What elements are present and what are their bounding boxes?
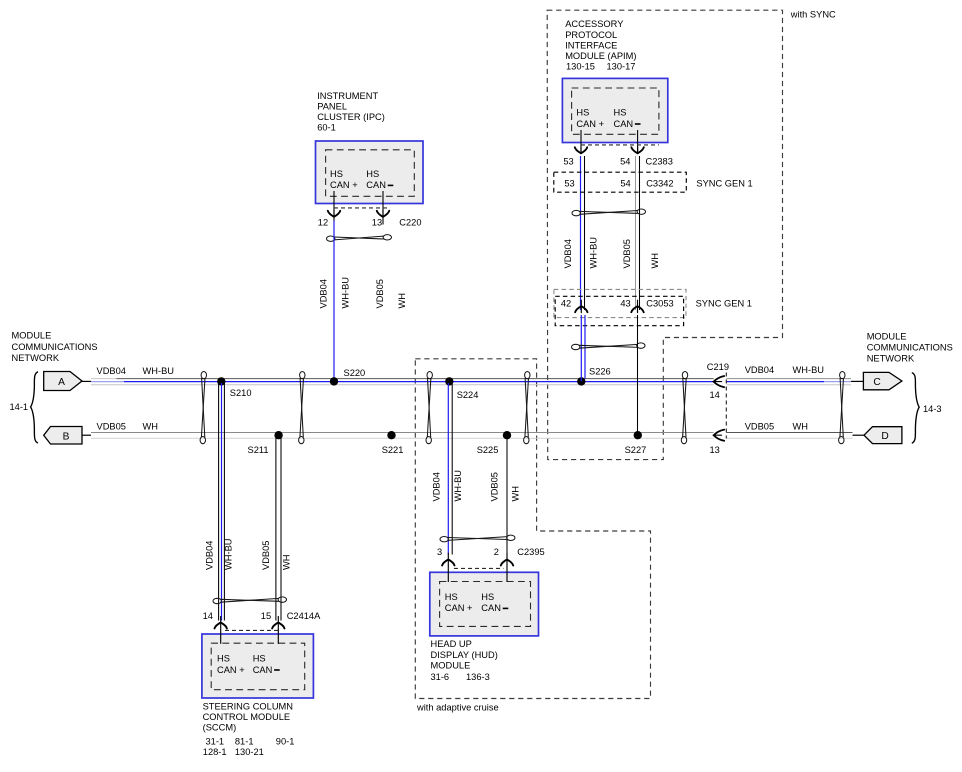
label SYNC GEN 1 lower xyxy=(696,299,752,309)
svg-text:HS: HS xyxy=(576,108,589,118)
wire APIM HS CAN+ pin stub xyxy=(580,130,582,153)
svg-text:VDB04: VDB04 xyxy=(563,239,573,268)
svg-text:with SYNC: with SYNC xyxy=(790,10,836,20)
splice S221 xyxy=(382,431,404,455)
svg-text:31-1: 31-1 xyxy=(206,737,225,747)
svg-text:VDB04: VDB04 xyxy=(745,365,774,375)
wire VDB04 WH-BU C3053 to S226 xyxy=(581,315,585,382)
svg-text:60-1: 60-1 xyxy=(317,123,336,133)
wire VDB05 WH C3053 to S227 xyxy=(637,315,639,435)
connector C2383 pin 53 xyxy=(563,156,573,166)
svg-text:D: D xyxy=(881,431,888,442)
twisted pair symbol at x=429.2 xyxy=(426,372,432,444)
connector C3053 arrows xyxy=(575,300,644,313)
svg-text:MODULE: MODULE xyxy=(431,660,471,670)
twisted pair symbol at x=684.5 xyxy=(681,372,687,444)
svg-text:15: 15 xyxy=(261,611,271,621)
svg-text:NETWORK: NETWORK xyxy=(12,353,60,363)
wire HUD pin stubs xyxy=(448,566,507,582)
svg-text:S210: S210 xyxy=(230,388,252,398)
svg-text:STEERING COLUMN: STEERING COLUMN xyxy=(203,702,293,712)
svg-text:B: B xyxy=(63,431,70,442)
svg-text:MODULE (APIM): MODULE (APIM) xyxy=(565,51,636,61)
svg-text:S221: S221 xyxy=(382,445,404,455)
svg-text:A: A xyxy=(58,377,65,388)
APIM page references xyxy=(566,62,635,72)
svg-text:14-3: 14-3 xyxy=(923,404,942,414)
wire IPC HS CAN- pin stub xyxy=(382,191,384,225)
svg-text:COMMUNICATIONS: COMMUNICATIONS xyxy=(12,342,98,352)
svg-text:CLUSTER (IPC): CLUSTER (IPC) xyxy=(317,112,385,122)
twisted pair below C220 xyxy=(327,235,392,242)
svg-text:C2383: C2383 xyxy=(646,156,673,166)
svg-text:HS: HS xyxy=(445,592,458,602)
svg-text:VDB04: VDB04 xyxy=(318,279,328,308)
svg-text:S220: S220 xyxy=(344,368,366,378)
svg-text:VDB05: VDB05 xyxy=(261,541,271,570)
connector C2395 arrows xyxy=(442,554,513,567)
svg-text:14-1: 14-1 xyxy=(10,402,29,412)
wire SCCM pin stubs xyxy=(221,629,279,644)
connector C220 pin 13 xyxy=(372,217,382,227)
connector C3342 dashed box SYNC GEN 1 xyxy=(554,172,687,192)
label VDB05 right xyxy=(745,422,774,432)
label VDB05 vertical APIM xyxy=(622,239,632,268)
label VDB05 left xyxy=(97,422,126,432)
svg-text:CAN +: CAN + xyxy=(576,119,604,129)
left network label xyxy=(12,331,98,363)
svg-text:VDB05: VDB05 xyxy=(745,422,774,432)
module U2 SCCM box xyxy=(202,634,314,698)
wire VDB05 WH C2383 to C3053 xyxy=(636,156,640,310)
connector C2395 label xyxy=(517,547,544,557)
splice S224 xyxy=(445,377,478,400)
label VDB04 vertical SCCM xyxy=(205,541,215,570)
svg-text:SYNC GEN 1: SYNC GEN 1 xyxy=(696,179,752,189)
label WH-BU vertical HUD xyxy=(453,470,463,502)
right page reference 14-3 xyxy=(912,373,942,444)
svg-text:12: 12 xyxy=(318,217,328,227)
connector C219 xyxy=(707,362,729,455)
connector C2395 pin 2 xyxy=(494,547,499,557)
svg-text:43: 43 xyxy=(620,299,630,309)
label SYNC GEN 1 upper xyxy=(696,179,752,189)
label VDB05 vertical SCCM xyxy=(261,541,271,570)
svg-text:CAN +: CAN + xyxy=(217,665,245,675)
twisted pair symbol at x=203.3 xyxy=(200,372,206,444)
svg-text:42: 42 xyxy=(561,299,571,309)
svg-text:130-15: 130-15 xyxy=(566,62,595,72)
splice S225 xyxy=(477,431,511,455)
svg-text:WH: WH xyxy=(143,422,159,432)
label WH-BU left xyxy=(143,366,175,376)
connector C2383 dashed edge xyxy=(581,144,659,146)
connector C2395 dashed edge xyxy=(454,567,504,569)
module U1 Instrument Panel Cluster (IPC) label xyxy=(317,91,385,133)
splice S227 xyxy=(625,431,647,455)
svg-text:WH: WH xyxy=(397,293,407,309)
svg-text:(SCCM): (SCCM) xyxy=(203,723,237,733)
module U3 HUD box xyxy=(430,572,539,636)
wire VDB05 WH S225 to HUD xyxy=(506,437,508,555)
node B connector xyxy=(44,427,91,445)
label VDB05 vertical HUD xyxy=(489,472,499,501)
svg-text:VDB04: VDB04 xyxy=(97,366,126,376)
svg-text:HS: HS xyxy=(481,592,494,602)
label WH-BU right xyxy=(793,365,825,375)
twisted pair symbol at x=301.8 xyxy=(299,372,305,444)
svg-text:VDB05: VDB05 xyxy=(375,279,385,308)
connector C2414A arrows xyxy=(215,617,285,630)
svg-text:136-3: 136-3 xyxy=(466,672,490,682)
svg-text:53: 53 xyxy=(563,156,573,166)
wire IPC HS CAN+ pin stub xyxy=(333,191,335,221)
twisted pair below C3053 xyxy=(572,343,646,350)
svg-text:MODULE: MODULE xyxy=(12,331,52,341)
svg-text:VDB05: VDB05 xyxy=(97,422,126,432)
svg-text:WH: WH xyxy=(793,422,809,432)
wire VDB04 WH-BU S210 to SCCM xyxy=(219,383,225,621)
connector C2414A dashed edge xyxy=(225,629,279,631)
HUD page references xyxy=(431,672,490,682)
connector C220 dashed edge xyxy=(334,207,390,209)
svg-text:CONTROL MODULE: CONTROL MODULE xyxy=(203,712,290,722)
node C connector xyxy=(851,372,902,389)
svg-text:HS: HS xyxy=(253,654,266,664)
svg-text:14: 14 xyxy=(710,390,720,400)
label WH-BU vertical IPC xyxy=(340,277,350,309)
svg-text:54: 54 xyxy=(620,156,630,166)
connector C2395 pin 3 xyxy=(437,547,442,557)
svg-text:S225: S225 xyxy=(477,445,499,455)
twisted pair above C2414A xyxy=(213,597,286,604)
svg-text:S227: S227 xyxy=(625,445,647,455)
svg-text:S224: S224 xyxy=(457,390,479,400)
connector C2414A pin 14 xyxy=(203,611,213,621)
splice S226 xyxy=(577,367,611,386)
label VDB04 left xyxy=(97,366,126,376)
label VDB04 vertical APIM xyxy=(563,239,573,268)
label WH vertical APIM xyxy=(650,253,660,269)
wire VDB05 WH S211 to SCCM xyxy=(276,437,281,621)
svg-text:13: 13 xyxy=(710,445,720,455)
connector C220 arrows xyxy=(328,210,389,217)
svg-text:WH-BU: WH-BU xyxy=(224,539,234,571)
svg-text:WH: WH xyxy=(650,253,660,269)
right network label xyxy=(867,332,953,364)
svg-text:CAN: CAN xyxy=(481,603,501,613)
connector C220 pin 12 xyxy=(318,217,328,227)
svg-text:WH-BU: WH-BU xyxy=(340,277,350,309)
svg-text:DISPLAY (HUD): DISPLAY (HUD) xyxy=(431,650,498,660)
svg-text:HS: HS xyxy=(614,108,627,118)
svg-text:S211: S211 xyxy=(248,445,269,455)
wire VDB04 WH-BU IPC to S220 xyxy=(333,221,335,382)
connector C2383 label xyxy=(646,156,673,166)
svg-text:C219: C219 xyxy=(707,362,729,372)
svg-text:VDB05: VDB05 xyxy=(622,239,632,268)
splice S211 xyxy=(248,431,283,455)
svg-text:WH: WH xyxy=(281,555,291,571)
svg-text:VDB04: VDB04 xyxy=(205,541,215,570)
splice S220 xyxy=(330,368,365,385)
wire VDB04 WH-BU C2383 to C3053 xyxy=(581,156,585,310)
wire VDB04 WH-BU S224 to HUD xyxy=(448,383,452,555)
svg-text:C220: C220 xyxy=(399,217,421,227)
svg-text:WH: WH xyxy=(511,486,521,502)
label WH vertical HUD xyxy=(511,486,521,502)
svg-text:WH-BU: WH-BU xyxy=(453,470,463,502)
label WH vertical IPC xyxy=(397,293,407,309)
svg-text:ACCESSORY: ACCESSORY xyxy=(565,19,623,29)
svg-text:C: C xyxy=(873,377,880,388)
connector C3053 dashed box SYNC GEN 1 xyxy=(554,289,686,325)
svg-text:C2414A: C2414A xyxy=(287,611,321,621)
svg-text:13: 13 xyxy=(372,217,382,227)
module U4 APIM box xyxy=(562,78,667,142)
connector C2383 arrows xyxy=(575,147,644,154)
svg-text:C3053: C3053 xyxy=(646,299,673,309)
svg-text:SYNC GEN 1: SYNC GEN 1 xyxy=(696,299,752,309)
wire bus VDB04 WH-BU left segment xyxy=(91,379,714,385)
connector C2414A pin 15 xyxy=(261,611,271,621)
twisted pair symbol at x=841.8 xyxy=(839,372,845,444)
svg-text:NETWORK: NETWORK xyxy=(867,353,915,363)
svg-text:3: 3 xyxy=(437,547,442,557)
module U2 Steering Column Control Module label xyxy=(203,702,293,733)
connector C2383 pin 54 xyxy=(620,156,630,166)
label WH right xyxy=(793,422,809,432)
svg-text:CAN: CAN xyxy=(253,665,273,675)
connector C2414A label xyxy=(287,611,321,621)
svg-text:128-1: 128-1 xyxy=(203,747,227,757)
svg-text:PROTOCOL: PROTOCOL xyxy=(565,30,617,40)
svg-text:HS: HS xyxy=(366,169,379,179)
svg-text:WH-BU: WH-BU xyxy=(143,366,175,376)
twisted pair above C2395 xyxy=(440,535,515,542)
svg-text:C2395: C2395 xyxy=(517,547,544,557)
label VDB04 vertical IPC xyxy=(318,279,328,308)
wire APIM HS CAN- pin stub xyxy=(637,130,639,153)
svg-text:PANEL: PANEL xyxy=(317,102,347,112)
svg-text:S226: S226 xyxy=(589,367,611,377)
svg-text:WH-BU: WH-BU xyxy=(588,237,598,269)
connector C220 label xyxy=(399,217,421,227)
svg-text:C3342: C3342 xyxy=(646,179,673,189)
svg-text:31-6: 31-6 xyxy=(431,672,450,682)
svg-text:130-21: 130-21 xyxy=(235,747,264,757)
svg-text:COMMUNICATIONS: COMMUNICATIONS xyxy=(867,343,953,353)
left page reference 14-1 xyxy=(10,372,39,443)
label VDB05 vertical IPC xyxy=(375,279,385,308)
with SYNC dashed region xyxy=(547,10,836,460)
svg-text:54: 54 xyxy=(620,179,630,189)
svg-text:CAN +: CAN + xyxy=(330,180,358,190)
node D connector xyxy=(853,427,902,444)
twisted pair below C3342 xyxy=(572,209,646,216)
svg-text:HS: HS xyxy=(330,169,343,179)
svg-text:130-17: 130-17 xyxy=(607,62,636,72)
wire bus VDB04 WH-BU right segment xyxy=(727,379,852,385)
svg-text:MODULE: MODULE xyxy=(867,332,907,342)
svg-text:2: 2 xyxy=(494,547,499,557)
module U3 Head Up Display label xyxy=(431,639,498,670)
SCCM page references xyxy=(203,737,295,758)
label VDB04 right xyxy=(745,365,774,375)
svg-text:VDB04: VDB04 xyxy=(432,472,442,501)
node A connector xyxy=(44,372,91,391)
svg-text:53: 53 xyxy=(564,179,574,189)
module U4 Accessory Protocol Interface Module label xyxy=(565,19,636,61)
svg-text:HEAD UP: HEAD UP xyxy=(431,639,472,649)
svg-text:81-1: 81-1 xyxy=(235,737,254,747)
module U1 IPC box xyxy=(316,141,424,204)
svg-text:CAN +: CAN + xyxy=(445,603,473,613)
label WH-BU vertical APIM xyxy=(588,237,598,269)
label WH-BU vertical SCCM xyxy=(224,539,234,571)
svg-text:with adaptive cruise: with adaptive cruise xyxy=(416,703,499,713)
svg-text:WH-BU: WH-BU xyxy=(793,365,825,375)
wire bus VDB05 WH left segment xyxy=(91,433,714,439)
svg-text:CAN: CAN xyxy=(614,119,634,129)
svg-text:CAN: CAN xyxy=(366,180,386,190)
svg-text:90-1: 90-1 xyxy=(276,737,295,747)
label WH vertical SCCM xyxy=(281,555,291,571)
svg-text:INTERFACE: INTERFACE xyxy=(565,41,617,51)
svg-text:HS: HS xyxy=(217,654,230,664)
twisted pair symbol at x=526.8 xyxy=(524,372,530,444)
svg-text:VDB05: VDB05 xyxy=(489,472,499,501)
label WH left xyxy=(143,422,159,432)
with adaptive cruise dashed region xyxy=(415,359,650,713)
wire bus VDB05 WH right segment xyxy=(727,433,853,439)
svg-text:INSTRUMENT: INSTRUMENT xyxy=(317,91,378,101)
splice S210 xyxy=(217,377,251,398)
label VDB04 vertical HUD xyxy=(432,472,442,501)
svg-text:14: 14 xyxy=(203,611,213,621)
